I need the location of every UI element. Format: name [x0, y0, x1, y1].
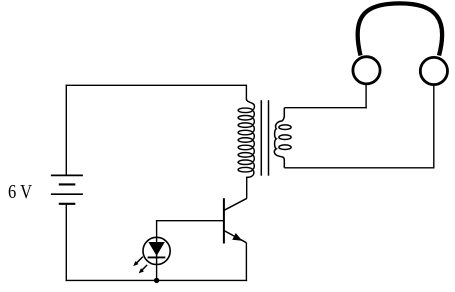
wire: top horizontal run to transformer primary — [66, 84, 247, 86]
transistor Q1 (NPN) — [224, 198, 247, 243]
wire: battery negative down the left side — [65, 204, 67, 281]
headphones left earpiece — [353, 57, 380, 84]
battery B1 (6 V cell stack) — [51, 175, 83, 203]
wire: emitter down to bottom rail — [245, 243, 247, 281]
headphones headband — [358, 3, 443, 55]
transformer T1 secondary winding — [274, 108, 291, 168]
wire: bottom rail — [66, 279, 248, 281]
wire: secondary top to left earpiece corner — [284, 107, 366, 109]
transformer T1 core — [261, 100, 268, 176]
wire: LED anode riser — [156, 221, 158, 238]
junction: LED cathode on bottom rail — [154, 278, 159, 283]
wire: left earpiece lead down — [365, 85, 367, 109]
wire: drop from top run into primary winding — [245, 85, 247, 100]
transformer T1 primary winding — [238, 99, 254, 179]
wire: right earpiece lead down — [433, 86, 435, 169]
wire: LED cathode down to bottom rail — [156, 264, 158, 280]
LED D1 — [133, 237, 170, 273]
wire: battery positive terminal up the left side — [65, 85, 67, 176]
wire: secondary bottom run to right earpiece — [284, 167, 434, 169]
headphones right earpiece — [420, 57, 447, 84]
wire: primary winding bottom down to collector corner — [246, 178, 248, 198]
wire: base lead from LED branch — [156, 220, 224, 222]
svg-text:6 V: 6 V — [8, 182, 32, 203]
